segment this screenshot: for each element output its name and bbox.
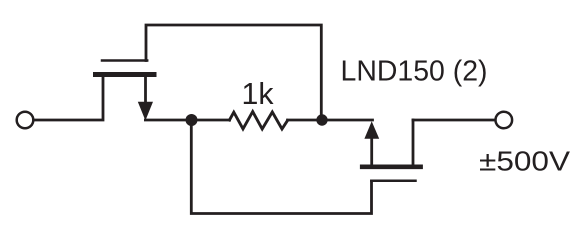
terminal (right output) (496, 112, 513, 129)
transistor Q1 LND150 channel bar (96, 72, 155, 77)
wire node B to Q2 source arrow (322, 119, 373, 122)
wire resistor to node B (288, 119, 323, 122)
resistor R1 1k (230, 112, 288, 129)
transistor Q2 gate line (371, 179, 415, 182)
wire top loop: Q1 gate to node B (146, 25, 321, 115)
transistor Q1 drain lead with arrow (144, 77, 147, 103)
transistor Q2 drain lead (412, 120, 415, 165)
wire Q2 drain to right terminal (413, 119, 495, 122)
transistor Q2 LND150 channel bar (362, 165, 420, 170)
svg-text:LND150 (2): LND150 (2) (341, 56, 488, 88)
node B junction dot (316, 114, 327, 125)
wire bottom feedback loop: node A to Q2 gate (191, 125, 371, 214)
terminal (left input) (17, 112, 34, 129)
svg-text:±500V: ±500V (479, 145, 571, 176)
wire Q1 drain to node A (145, 119, 187, 122)
node A junction dot (186, 114, 198, 126)
svg-text:1k: 1k (242, 77, 275, 111)
transistor Q1 gate line (102, 59, 147, 62)
transistor Q2 source lead with up arrow (364, 121, 379, 139)
wire node A to resistor (192, 119, 230, 122)
wire left terminal to Q1 source (34, 77, 103, 120)
